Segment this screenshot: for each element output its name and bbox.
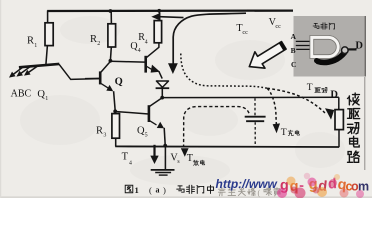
svg-text:2: 2: [97, 41, 100, 47]
wire gate output: [348, 48, 356, 50]
svg-text:3: 3: [103, 133, 106, 139]
resistor R3: [112, 114, 120, 139]
wire Vcc rail: [47, 9, 293, 12]
label Q1: [37, 89, 48, 102]
label ABC: [11, 89, 32, 100]
svg-text:T: T: [281, 127, 287, 138]
caption faint continuation: [218, 188, 280, 198]
node R2-rail junction: [109, 9, 113, 13]
gate swoosh: [314, 50, 346, 63]
wire capacitor top dashed lead: [254, 98, 256, 115]
node output junction: [160, 96, 164, 100]
svg-text:T: T: [187, 153, 194, 164]
wire Q2 collector: [101, 62, 111, 73]
label R2: [90, 34, 100, 47]
svg-text:): ): [163, 185, 166, 195]
wire load bottom stub: [338, 129, 340, 147]
label Q2: [115, 76, 123, 87]
wire Q5 emitter down: [164, 128, 165, 145]
label T discharge: [187, 153, 205, 166]
arrow charge branch: [267, 88, 276, 124]
wire ground rail: [115, 145, 339, 148]
resistor R2: [108, 24, 116, 47]
arrow Tcc down head: [168, 63, 178, 74]
svg-text:1: 1: [34, 43, 37, 49]
resistor R1: [45, 23, 53, 46]
label R3: [96, 126, 106, 139]
svg-text:4: 4: [145, 39, 148, 45]
transistor Q5 base bar: [148, 105, 151, 122]
label Q5: [137, 126, 148, 139]
wire load top stub: [338, 97, 340, 110]
label Tcc: [236, 23, 248, 36]
svg-text:ABC: ABC: [11, 89, 32, 100]
gate output bubble: [342, 47, 349, 54]
svg-text:C: C: [291, 60, 296, 69]
svg-text:T: T: [307, 83, 313, 93]
svg-text:4: 4: [129, 161, 132, 167]
transistor Q2 base bar: [99, 71, 102, 84]
label R4: [138, 32, 148, 45]
label R1: [27, 36, 37, 49]
label Q3: [130, 41, 140, 54]
arrow noise dotted arc: [181, 54, 267, 89]
svg-text:1: 1: [135, 185, 139, 195]
svg-text:R: R: [27, 36, 34, 47]
wire R3 junction to Q5 base: [115, 112, 148, 115]
svg-text:D: D: [330, 89, 338, 100]
arrow charge head: [273, 123, 280, 133]
wire Q2 base lead: [85, 77, 100, 79]
caption 图1 (a) 与非门中: [125, 185, 213, 195]
label T charge: [281, 127, 300, 138]
arrow drive branch: [267, 88, 325, 113]
svg-text:1: 1: [45, 96, 48, 102]
label driven circuit 被驱动电路: [348, 93, 360, 162]
label T4: [122, 151, 132, 166]
svg-text:A: A: [291, 32, 297, 41]
watermark http://www: [216, 177, 278, 191]
svg-text:cc: cc: [275, 23, 281, 30]
arrow Tcc curve: [173, 13, 246, 63]
label gate output D: [355, 40, 363, 51]
svg-text:Q: Q: [37, 89, 45, 100]
transistor Q1 base bar: [19, 64, 59, 67]
resistor RL load: [335, 110, 343, 130]
svg-text:4: 4: [138, 48, 141, 54]
label input A: [291, 32, 297, 41]
arrow Tcc rail branch: [151, 13, 183, 21]
wire Q1 collector: [59, 64, 100, 79]
page crease line: [364, 77, 366, 170]
svg-text:5: 5: [145, 133, 148, 139]
node R4-rail junction: [157, 9, 161, 13]
arrow drive head: [325, 108, 334, 119]
node emitter-ground junction: [163, 144, 167, 148]
node R2-Q3 junction: [109, 59, 113, 63]
ground: [151, 170, 175, 175]
wire gate inputs: [296, 41, 314, 49]
arrow discharge head: [181, 148, 189, 157]
svg-text:http://www: http://www: [216, 177, 278, 191]
wire R1 bottom: [46, 46, 48, 65]
label T drive: [307, 83, 327, 93]
transistor Q5 emitter: [149, 120, 164, 128]
NAND inset grey box: [294, 16, 367, 77]
wire R1 top stub: [47, 11, 49, 25]
wire capacitor bottom dashed lead: [254, 122, 256, 146]
svg-text:R: R: [90, 34, 97, 45]
arrow sink current: [150, 145, 158, 164]
transistor Q3 base bar: [144, 56, 147, 73]
svg-text:(: (: [149, 185, 152, 195]
wire ground stub: [164, 146, 166, 170]
wire output D net: [162, 96, 339, 98]
wire R2 bottom: [109, 47, 112, 60]
svg-text:R: R: [96, 126, 103, 137]
wire Q5 collector: [150, 98, 162, 106]
label input C: [291, 60, 296, 69]
wire R4 top stub: [158, 11, 160, 21]
label D output: [330, 89, 338, 100]
svg-text:cc: cc: [242, 29, 248, 36]
svg-text:B: B: [291, 46, 296, 55]
wire R2 junction to Q3 base: [110, 60, 144, 63]
transistor Q2 emitter: [101, 83, 114, 91]
svg-text:D: D: [355, 40, 363, 51]
wire R3 bottom: [115, 138, 117, 146]
wire R4 to Q3 collector: [146, 43, 159, 58]
label Vs: [170, 152, 180, 165]
diode D1: [156, 81, 170, 97]
wire R2 top stub: [110, 11, 112, 24]
arrow block pointer: [249, 42, 286, 69]
label Vcc: [269, 17, 282, 30]
label input B: [291, 46, 296, 55]
arrow discharge dashed loop: [184, 107, 249, 148]
svg-text:a: a: [156, 186, 160, 195]
resistor R4: [154, 21, 161, 43]
node Q2-R3 junction: [113, 109, 117, 113]
label NAND title 与非门: [313, 23, 334, 30]
capacitor C plates: [245, 117, 266, 122]
transistor Q1 emitter arrows (inputs A B C): [9, 66, 38, 78]
op-amp U1 gate body: [312, 37, 338, 56]
watermark colored letters: [277, 173, 369, 199]
svg-text:T: T: [122, 151, 129, 162]
svg-text:Q: Q: [115, 76, 123, 87]
wire Q2 emitter down: [114, 91, 116, 111]
transistor Q3 emitter: [146, 65, 162, 79]
